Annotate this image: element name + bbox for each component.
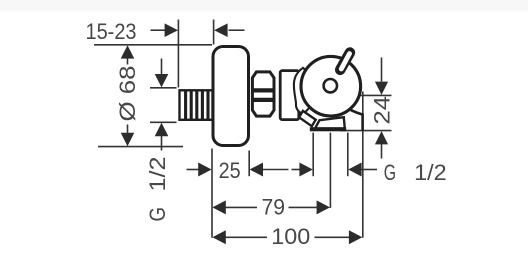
arrow outlet pointing left at x=348 <box>348 163 361 177</box>
svg-text:100: 100 <box>271 224 310 249</box>
dim line O68 vertical lower tail <box>127 125 129 134</box>
arrow O68 up at y=45 <box>121 45 135 58</box>
arrow 79 pointing left at x=212 <box>212 200 225 214</box>
svg-text:G: G <box>384 160 396 185</box>
dim line outlet G12 right tail <box>361 169 377 171</box>
arrow G12-left up at y=122 <box>155 123 169 136</box>
arrow O68 down at y=146 <box>121 133 135 146</box>
svg-text:G: G <box>145 207 170 222</box>
escutcheon (wall rosette, side view) <box>213 47 249 146</box>
hex union nut <box>251 72 275 116</box>
dim line G12-left upper tail <box>161 59 163 76</box>
svg-text:Ø 68: Ø 68 <box>115 66 140 122</box>
ext line: wall face vertical below escutcheon (ref for 25/79/100) <box>211 149 213 238</box>
arrow 25 pointing right at x=212 <box>198 163 211 177</box>
dim line 79 left segment <box>226 206 258 208</box>
dim line O68 vertical upper tail <box>127 58 129 65</box>
lever grip outline <box>340 53 350 70</box>
handle hub <box>324 79 337 92</box>
svg-text:24: 24 <box>370 96 395 125</box>
outlet flange bottom bar <box>310 127 346 131</box>
svg-text:79: 79 <box>262 195 286 220</box>
ext line: 24 bottom horizontal <box>340 130 392 132</box>
top gray band <box>0 0 528 11</box>
ext line: escutcheon left edge vertical (15-23 right bound) <box>213 20 215 45</box>
svg-text:1/2: 1/2 <box>145 157 170 192</box>
threaded inlet nipple with hatch <box>180 90 213 120</box>
body profile crescent behind handle (upper left) <box>294 68 309 115</box>
lever grip interior <box>341 54 349 69</box>
handle (thermostat knob) <box>301 56 361 116</box>
arrow 24 down at y=95 <box>375 82 388 95</box>
dim line 25 left tail <box>187 169 200 171</box>
arrow 25 pointing left at x=249 <box>250 163 263 177</box>
svg-text:15-23: 15-23 <box>86 19 137 44</box>
outlet flange trapezoid <box>315 117 345 128</box>
arrow 79 pointing right at x=330 <box>317 200 330 214</box>
dim line 79 right segment <box>289 206 318 208</box>
ext line: 24 top horizontal <box>358 94 392 96</box>
ext line: top of escutcheon horizontal (O68 top) <box>94 44 212 46</box>
chamfer ribbon between body and outlet flange <box>299 111 316 126</box>
cartridge housing <box>280 71 299 120</box>
ext line: outlet left edge vertical <box>312 133 314 177</box>
ext line: bottom of escutcheon horizontal (O68 bottom) <box>98 146 183 148</box>
ext line: outlet right edge vertical <box>347 133 349 177</box>
body right wall <box>361 114 364 131</box>
arrow 15-23 pointing right at x=178 <box>165 23 178 37</box>
arrow outlet pointing right at x=313 <box>299 163 312 177</box>
arrow 100 pointing right at x=363 <box>349 230 362 244</box>
dim line 25 right tail <box>263 169 289 171</box>
arrow G12-left down at y=88 <box>155 74 169 87</box>
dim line 24 upper tail <box>381 58 383 82</box>
svg-text:25: 25 <box>219 158 241 183</box>
dim line 15-23 left tail <box>151 29 166 31</box>
dim line 100 left segment <box>226 236 268 238</box>
ext line: escutcheon right vertical (25 right bound) <box>248 151 250 177</box>
arrow 24 up at y=131 <box>375 131 388 144</box>
dim line 100 right segment <box>315 236 351 238</box>
ext line: valve axis vertical (79 right bound) <box>329 133 331 208</box>
body arc to right wall <box>343 105 363 114</box>
dim line outlet G12 left tail <box>292 169 301 171</box>
dim line 15-23 right tail <box>229 29 245 31</box>
dim line 24 lower tail <box>381 144 383 159</box>
dim line G12-left lower tail <box>161 136 163 151</box>
ext line: thread top horizontal (G12 left top) <box>150 87 177 89</box>
ext line: body right edge vertical (100 right bound) <box>362 92 364 238</box>
arrow 15-23 pointing left at x=214 <box>214 23 227 37</box>
ext line: thread left edge vertical (15-23 left bound) <box>177 20 179 88</box>
svg-text:1/2: 1/2 <box>414 160 447 185</box>
arrow 100 pointing left at x=212 <box>212 230 225 244</box>
ext line: thread bottom horizontal (G12 left bottom) <box>150 121 177 123</box>
